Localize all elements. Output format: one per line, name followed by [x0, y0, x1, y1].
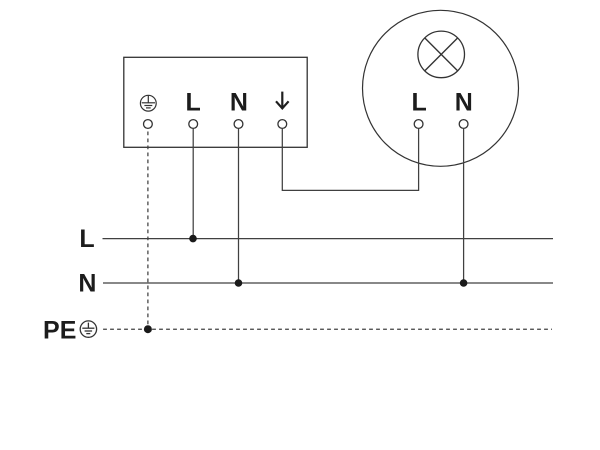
- earth symbol (inside box): [140, 95, 156, 111]
- terminal arrow (box): [278, 120, 287, 129]
- svg-text:L: L: [79, 225, 94, 253]
- terminal L (box): [189, 120, 198, 129]
- svg-text:L: L: [412, 88, 427, 116]
- svg-text:PE: PE: [43, 317, 76, 345]
- junction on N bus (box wire): [235, 279, 243, 287]
- terminal L (lamp): [414, 120, 423, 129]
- wire: box N terminal to N bus: [238, 128, 240, 283]
- svg-text:L: L: [186, 88, 201, 116]
- wire: box PE terminal to PE bus (dashed): [147, 132, 149, 327]
- junction on L bus: [189, 235, 197, 243]
- terminal box U1: [124, 57, 307, 147]
- svg-text:N: N: [455, 88, 473, 116]
- svg-text:N: N: [78, 269, 96, 297]
- junction on PE bus: [144, 325, 152, 333]
- N bus line: [103, 282, 553, 284]
- lamp symbol E1: [418, 31, 465, 78]
- terminal PE (box): [144, 120, 153, 129]
- arrow symbol (switched output): [276, 92, 289, 109]
- wire: lamp N terminal to N bus: [463, 128, 465, 283]
- L bus line: [103, 238, 554, 240]
- earth symbol (PE bus): [80, 321, 96, 337]
- wire: arrow terminal to lamp L terminal: [282, 128, 418, 190]
- terminal N (box): [234, 120, 243, 129]
- junction on N bus (lamp wire): [460, 279, 468, 287]
- svg-text:N: N: [230, 88, 248, 116]
- terminal N (lamp): [459, 120, 468, 129]
- luminaire enclosure circle: [363, 10, 519, 166]
- wire: box L terminal to L bus: [192, 128, 194, 238]
- PE bus line (dashed): [103, 328, 552, 330]
